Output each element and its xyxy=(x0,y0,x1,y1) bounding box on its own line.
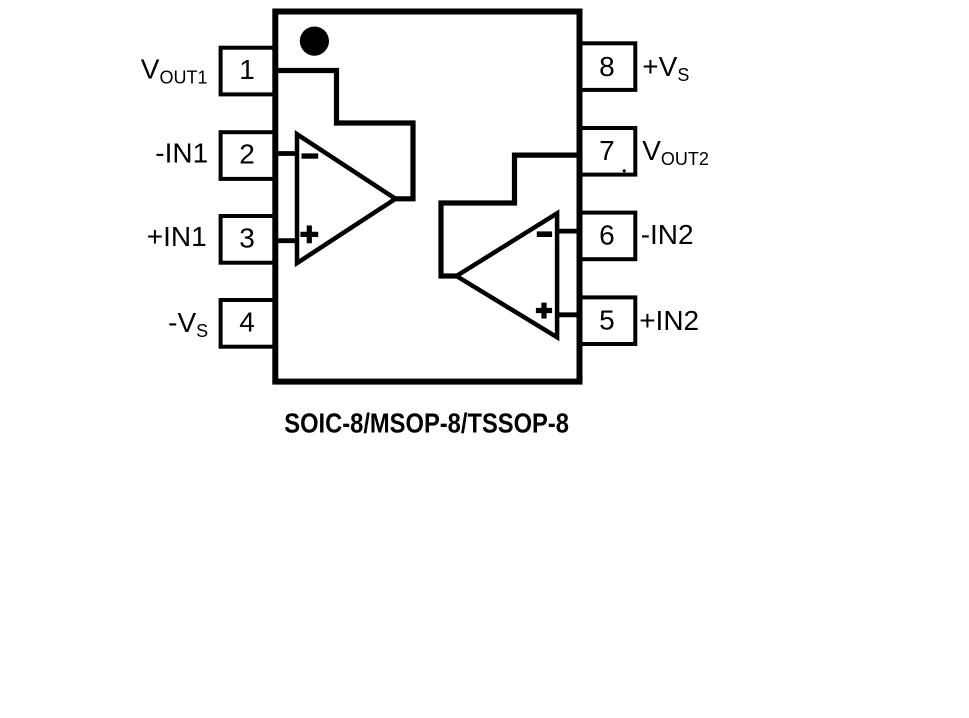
svg-text:2: 2 xyxy=(239,139,255,170)
op-amp U1B triangle xyxy=(457,213,558,337)
svg-text:-IN1: -IN1 xyxy=(155,137,208,168)
pin 6 box xyxy=(579,213,636,260)
pin 7 box xyxy=(579,128,636,175)
pin 1 orientation dot xyxy=(300,26,329,55)
pin 2 box xyxy=(221,132,276,179)
svg-text:SOIC-8/MSOP-8/TSSOP-8: SOIC-8/MSOP-8/TSSOP-8 xyxy=(284,408,569,439)
pin 8 box xyxy=(579,43,636,90)
wire net pin7 to op-amp B output xyxy=(441,155,577,276)
svg-text:+IN2: +IN2 xyxy=(639,305,699,336)
op-amp U1A plus symbol xyxy=(300,226,318,244)
wire pin3 to op-amp A non-inverting input xyxy=(275,238,298,243)
svg-text:3: 3 xyxy=(239,222,255,253)
stray dot artifact near pin 7 xyxy=(623,169,626,172)
pin 1 box xyxy=(221,48,276,95)
svg-text:+IN1: +IN1 xyxy=(147,221,207,252)
wire pin6 to op-amp B inverting input xyxy=(556,229,579,234)
pin 5 box xyxy=(579,297,636,344)
svg-text:-IN2: -IN2 xyxy=(641,219,694,250)
IC package body U1 (SOIC-8/MSOP-8/TSSOP-8 outline) xyxy=(275,12,579,382)
svg-text:7: 7 xyxy=(599,135,615,166)
wire pin2 to op-amp A inverting input xyxy=(275,151,298,156)
wire net pin1 to op-amp A output xyxy=(277,71,413,199)
svg-text:4: 4 xyxy=(239,307,255,338)
op-amp U1A triangle xyxy=(297,134,396,263)
svg-text:5: 5 xyxy=(599,305,615,336)
svg-text:8: 8 xyxy=(599,51,615,82)
op-amp U1B plus symbol xyxy=(536,303,552,319)
svg-text:1: 1 xyxy=(239,54,255,85)
wire pin5 to op-amp B non-inverting input xyxy=(556,312,579,317)
pin 3 box xyxy=(221,216,276,263)
svg-text:6: 6 xyxy=(599,219,615,250)
op-amp U1A minus symbol xyxy=(302,153,319,158)
pin 4 box xyxy=(221,300,276,347)
op-amp U1B minus symbol xyxy=(537,231,552,237)
